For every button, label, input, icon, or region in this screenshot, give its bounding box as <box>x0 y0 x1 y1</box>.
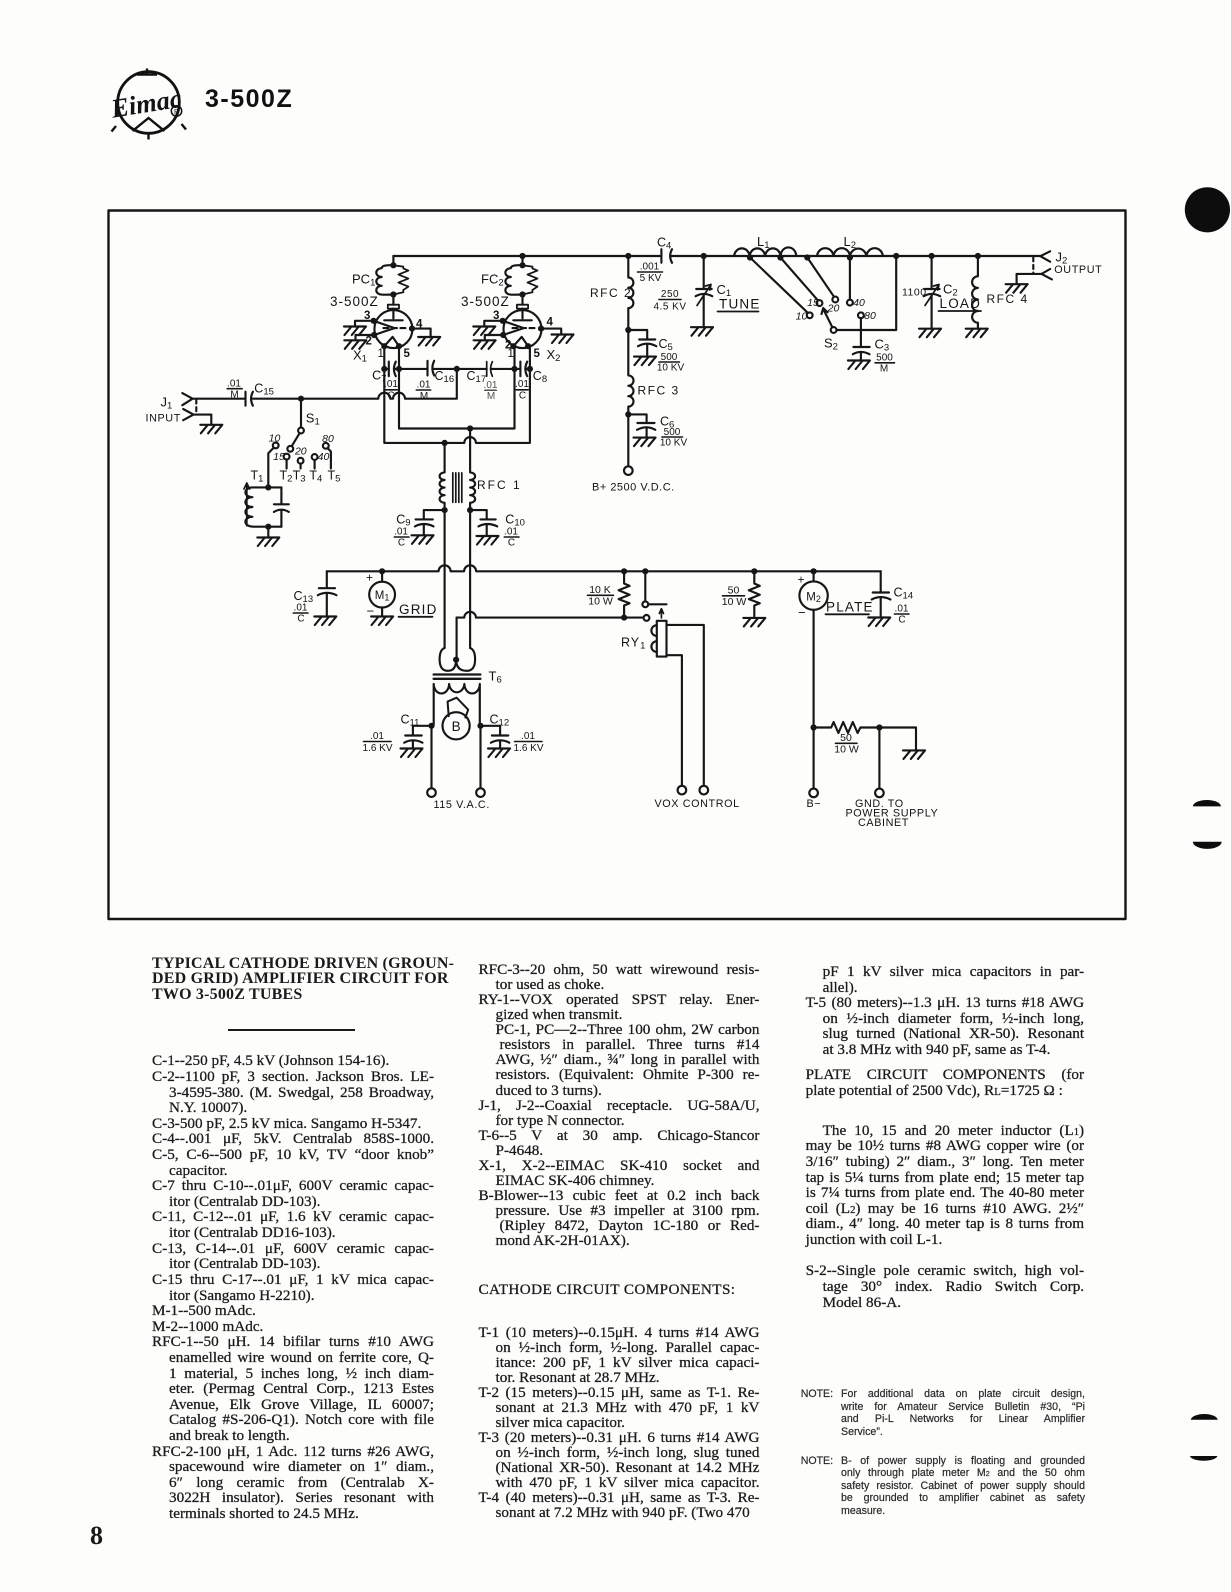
capacitor C16 <box>416 361 454 402</box>
svg-text:M1: M1 <box>375 590 390 603</box>
ground to power supply terminal <box>846 728 939 830</box>
svg-text:15: 15 <box>273 451 285 463</box>
svg-text:C5: C5 <box>659 337 673 353</box>
blower B <box>443 698 470 740</box>
label GRID <box>399 602 438 617</box>
svg-text:TUNE: TUNE <box>719 297 761 312</box>
svg-text:GRID: GRID <box>399 602 438 617</box>
filament CT lead to bias bus <box>456 618 458 659</box>
svg-text:C16: C16 <box>435 369 455 385</box>
bypass capacitor C6 <box>628 414 687 448</box>
svg-text:20: 20 <box>294 445 307 457</box>
tank inductor L1 <box>734 234 796 256</box>
svg-text:INPUT: INPUT <box>146 413 181 425</box>
T6 core <box>434 675 481 679</box>
svg-text:10 KV: 10 KV <box>657 363 685 374</box>
capacitor C4 (plate blocking) <box>625 236 672 285</box>
J1 shell ground <box>194 415 223 434</box>
svg-text:PLATE: PLATE <box>826 600 874 615</box>
svg-text:5: 5 <box>404 348 411 360</box>
svg-text:3: 3 <box>364 310 370 322</box>
svg-text:RFC 1: RFC 1 <box>477 478 522 492</box>
svg-text:50: 50 <box>840 732 852 744</box>
svg-text:C: C <box>398 538 405 549</box>
column 1 title <box>152 956 433 1003</box>
svg-text:80: 80 <box>864 310 876 322</box>
X2 pin 3 lead and ground <box>473 321 502 335</box>
padder capacitor C3 <box>848 330 895 375</box>
svg-text:VOX CONTROL: VOX CONTROL <box>655 798 740 810</box>
VOX relay RY1 coil <box>621 621 667 657</box>
svg-text:RFC 3: RFC 3 <box>638 384 680 398</box>
X2 pin 2 lead and ground <box>474 335 504 349</box>
svg-text:20: 20 <box>827 303 840 315</box>
svg-text:T5: T5 <box>328 469 341 485</box>
load capacitor C2 <box>902 253 981 337</box>
Eimac logo <box>105 62 220 147</box>
svg-text:M: M <box>487 391 495 402</box>
svg-text:10: 10 <box>269 433 281 445</box>
tune capacitor C1 <box>653 253 760 336</box>
capacitor C15 <box>227 378 274 405</box>
svg-text:1: 1 <box>508 348 514 360</box>
svg-text:250: 250 <box>661 289 679 300</box>
X1 pin 4 lead and ground <box>412 329 440 346</box>
svg-text:C: C <box>508 538 515 549</box>
node RFC3/C6/B+ junction <box>625 411 631 417</box>
svg-text:B−: B− <box>807 798 822 810</box>
svg-text:115 V.A.C.: 115 V.A.C. <box>434 799 490 811</box>
svg-text:T2: T2 <box>280 469 293 485</box>
column 1 <box>152 1053 434 1521</box>
svg-text:.01: .01 <box>521 731 535 742</box>
grid resistor 10K 10W <box>588 568 630 621</box>
svg-text:C12: C12 <box>490 713 510 729</box>
svg-text:+: + <box>366 571 373 585</box>
line bypass capacitor C12 <box>481 713 544 758</box>
svg-text:.01: .01 <box>417 380 431 391</box>
svg-text:.01: .01 <box>384 379 398 390</box>
S1 contact 20 <box>294 445 307 468</box>
svg-text:OUTPUT: OUTPUT <box>1054 264 1102 276</box>
svg-text:M: M <box>880 364 888 375</box>
svg-text:.001: .001 <box>640 262 660 273</box>
svg-text:−: − <box>798 605 806 620</box>
tank inductor L2 <box>817 234 883 256</box>
column 1 rule <box>228 1029 355 1031</box>
svg-text:40: 40 <box>853 297 865 309</box>
VOX relay RY1 contacts <box>642 568 666 621</box>
coaxial input jack J1 <box>182 393 196 420</box>
chassis ground of safety resistor <box>879 728 925 759</box>
svg-text:C14: C14 <box>894 586 914 602</box>
contact 80 <box>858 310 876 330</box>
bypass capacitor C10 <box>470 510 525 548</box>
svg-text:.01: .01 <box>895 604 909 615</box>
svg-text:.01: .01 <box>294 603 308 614</box>
bifilar filament choke RFC1 <box>440 429 522 511</box>
capacitor C7 <box>372 362 398 402</box>
svg-text:500: 500 <box>876 353 893 364</box>
svg-text:10 W: 10 W <box>722 596 747 608</box>
label PLATE <box>826 600 874 615</box>
115 VAC terminals <box>427 726 490 811</box>
svg-text:X1: X1 <box>353 348 367 365</box>
bypass capacitor C5 <box>628 330 684 374</box>
cathode bus X1 pin5 to X2 pin1 <box>399 346 515 431</box>
column 3 <box>806 964 1085 1310</box>
svg-text:.01: .01 <box>370 731 384 742</box>
parasitic suppressor PC1 <box>376 256 408 305</box>
svg-text:.01: .01 <box>227 378 241 389</box>
svg-text:J1: J1 <box>161 395 173 412</box>
svg-text:S2: S2 <box>824 336 838 353</box>
L2 tap to contact 40 <box>847 254 865 308</box>
node blower lead junctions <box>428 723 434 729</box>
node RFC1 to filament junctions <box>442 507 448 513</box>
X1 pin 2 lead and ground <box>344 335 374 349</box>
svg-text:.01: .01 <box>504 527 518 538</box>
svg-text:L1: L1 <box>757 234 770 251</box>
svg-text:RFC 2: RFC 2 <box>590 286 632 300</box>
top plate bus wire <box>393 255 1040 257</box>
svg-text:CABINET: CABINET <box>858 817 909 829</box>
svg-text:C3: C3 <box>875 337 890 354</box>
plate choke RFC3 <box>628 330 679 414</box>
svg-text:10 W: 10 W <box>588 596 613 608</box>
capacitor C17 <box>467 362 498 403</box>
svg-text:S1: S1 <box>306 411 320 428</box>
svg-text:L2: L2 <box>844 234 857 251</box>
big printed dot top right <box>1183 186 1231 234</box>
svg-text:3: 3 <box>493 310 499 322</box>
svg-text:B+ 2500 V.D.C.: B+ 2500 V.D.C. <box>592 482 675 494</box>
svg-text:RFC 4: RFC 4 <box>987 292 1029 306</box>
S1 contact 40 <box>312 451 330 469</box>
output choke RFC4 <box>966 253 1029 337</box>
page number <box>90 1521 103 1551</box>
svg-text:4: 4 <box>416 319 423 331</box>
T1 ground <box>257 527 279 546</box>
plate meter M2 <box>798 568 828 727</box>
input wire <box>193 369 457 399</box>
node RFC2/RFC3/C5 junction <box>625 327 631 333</box>
column 2 <box>479 962 760 1520</box>
svg-text:.01: .01 <box>394 527 408 538</box>
schematic frame <box>109 211 1126 920</box>
filament winding of T6 <box>440 648 476 671</box>
svg-text:80: 80 <box>322 433 334 445</box>
svg-text:1.6 KV: 1.6 KV <box>513 743 543 754</box>
svg-text:+: + <box>798 573 805 587</box>
svg-text:40: 40 <box>318 451 330 463</box>
S1 contact 80 <box>322 433 334 469</box>
T6 primary winding <box>434 684 480 725</box>
X2 pin 4 lead and ground <box>541 329 573 343</box>
grid meter M1 <box>366 568 395 625</box>
svg-text:1.6 KV: 1.6 KV <box>362 743 392 754</box>
svg-text:.01: .01 <box>515 379 529 390</box>
svg-text:1100: 1100 <box>902 287 927 299</box>
svg-text:C4: C4 <box>657 236 671 252</box>
band switch S1 <box>287 399 304 452</box>
svg-text:FC2: FC2 <box>481 272 504 289</box>
L1 tap to contact 20 <box>804 254 839 314</box>
svg-text:T3: T3 <box>293 469 306 485</box>
svg-text:1: 1 <box>378 348 384 360</box>
svg-text:M2: M2 <box>806 591 821 604</box>
parasitic suppressor FC2 <box>505 253 537 305</box>
S1 contact 10 <box>268 433 280 485</box>
svg-text:C11: C11 <box>401 713 420 729</box>
L1 tap to contact 15 <box>777 254 822 308</box>
relay leads to VOX terminals <box>655 625 740 810</box>
triode X2 <box>500 305 545 350</box>
cathode capacitor row wire <box>384 368 530 370</box>
note 2 <box>801 1455 833 1467</box>
coaxial output jack J2 <box>1006 251 1052 292</box>
svg-text:15: 15 <box>807 297 819 309</box>
plate choke RFC2 <box>590 256 633 330</box>
L1 tap to contact 10 <box>747 254 813 322</box>
filament leads down to T6 <box>445 510 471 648</box>
svg-text:2: 2 <box>366 336 372 348</box>
svg-text:10 KV: 10 KV <box>660 437 688 448</box>
bleeder resistor 50 10W <box>722 568 766 626</box>
svg-text:C: C <box>519 391 526 402</box>
svg-text:X2: X2 <box>547 347 561 364</box>
svg-text:10 W: 10 W <box>834 744 859 756</box>
grid metering bus <box>327 565 881 571</box>
svg-text:5: 5 <box>534 348 541 360</box>
svg-text:10 K: 10 K <box>589 584 611 596</box>
capacitor C8 <box>515 362 547 402</box>
svg-text:C: C <box>297 614 304 625</box>
bias return bus <box>457 612 644 618</box>
svg-text:T4: T4 <box>309 469 322 485</box>
svg-text:T1: T1 <box>251 469 264 485</box>
note 1 <box>801 1388 833 1400</box>
bypass capacitor C13 <box>293 571 336 625</box>
svg-text:.01: .01 <box>484 380 498 391</box>
svg-text:C8: C8 <box>533 369 547 385</box>
svg-text:B: B <box>452 719 461 734</box>
registration marks right edge <box>1188 796 1228 852</box>
svg-text:M: M <box>420 391 428 402</box>
B+ feed terminal <box>592 414 675 493</box>
svg-text:M: M <box>230 390 238 401</box>
cathode tank T1 <box>244 483 289 530</box>
svg-text:3-500Z: 3-500Z <box>461 294 510 309</box>
svg-text:4.5 KV: 4.5 KV <box>653 302 686 313</box>
svg-text:10: 10 <box>796 311 808 323</box>
svg-text:C: C <box>898 615 905 626</box>
cathode bus X1 pin1 to X2 pin5 <box>384 346 530 446</box>
svg-text:T6: T6 <box>489 669 502 686</box>
svg-text:3-500Z: 3-500Z <box>330 294 379 309</box>
B minus terminal <box>807 728 822 811</box>
triode X1 <box>371 305 416 350</box>
S1 contact 15 <box>273 451 289 469</box>
svg-text:C15: C15 <box>254 381 274 397</box>
svg-text:PC1: PC1 <box>352 272 375 289</box>
svg-text:5 KV: 5 KV <box>640 273 662 284</box>
bypass capacitor C9 <box>394 510 445 548</box>
svg-text:50: 50 <box>728 585 740 597</box>
bypass capacitor C14 <box>868 571 913 626</box>
svg-text:4: 4 <box>547 317 554 329</box>
X1 pin 3 lead and ground <box>344 321 374 335</box>
header type number <box>205 85 293 114</box>
safety resistor 50 10W <box>811 722 883 756</box>
band switch S2 <box>822 253 900 353</box>
line bypass capacitor C11 <box>362 713 431 758</box>
svg-text:RY1: RY1 <box>621 636 646 652</box>
